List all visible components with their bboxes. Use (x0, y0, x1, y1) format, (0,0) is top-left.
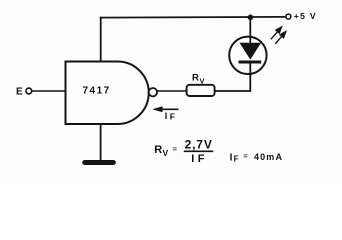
label IF (current arrow) (165, 111, 175, 121)
wire U1 top stub to +5V rail (100, 17, 102, 63)
current arrow IF (152, 106, 178, 112)
svg-text:R: R (154, 144, 162, 156)
junction LED anode on +5V rail (248, 14, 254, 20)
svg-text:I: I (191, 153, 194, 165)
svg-text:V: V (163, 148, 169, 158)
wire LED cathode to resistor (215, 63, 251, 91)
formula RV = 2,7V / IF (154, 137, 213, 165)
resistor RV body (187, 85, 215, 96)
wire +5V rail to LED anode (249, 17, 251, 44)
svg-text:40mA: 40mA (254, 152, 283, 162)
svg-text:F: F (170, 111, 175, 121)
wire +5V rail (100, 16, 286, 19)
terminal +5V (286, 14, 291, 19)
svg-text:I: I (230, 152, 233, 163)
LED D1 (229, 37, 266, 74)
ground (85, 160, 114, 165)
svg-text:+5 V: +5 V (294, 11, 317, 21)
svg-text:=: = (173, 144, 178, 153)
svg-text:2,7V: 2,7V (185, 137, 213, 151)
svg-text:R: R (192, 72, 199, 83)
svg-text:E: E (16, 87, 23, 98)
input terminal E (26, 88, 32, 94)
open-collector output bubble of U1 (149, 88, 157, 96)
wire U1 ground stub (100, 124, 102, 160)
svg-text:I: I (165, 111, 168, 121)
svg-text:=: = (243, 152, 248, 161)
svg-text:7417: 7417 (83, 86, 111, 97)
label IF = 40mA (230, 152, 284, 164)
LED light emission arrows (271, 27, 286, 44)
svg-text:V: V (200, 77, 205, 86)
wire E to U1 input (32, 90, 66, 92)
buffer U1 7417 body (66, 62, 149, 125)
wire U1 output to resistor (157, 90, 186, 92)
label RV (192, 72, 205, 85)
svg-text:F: F (198, 153, 205, 165)
svg-text:F: F (234, 155, 239, 164)
